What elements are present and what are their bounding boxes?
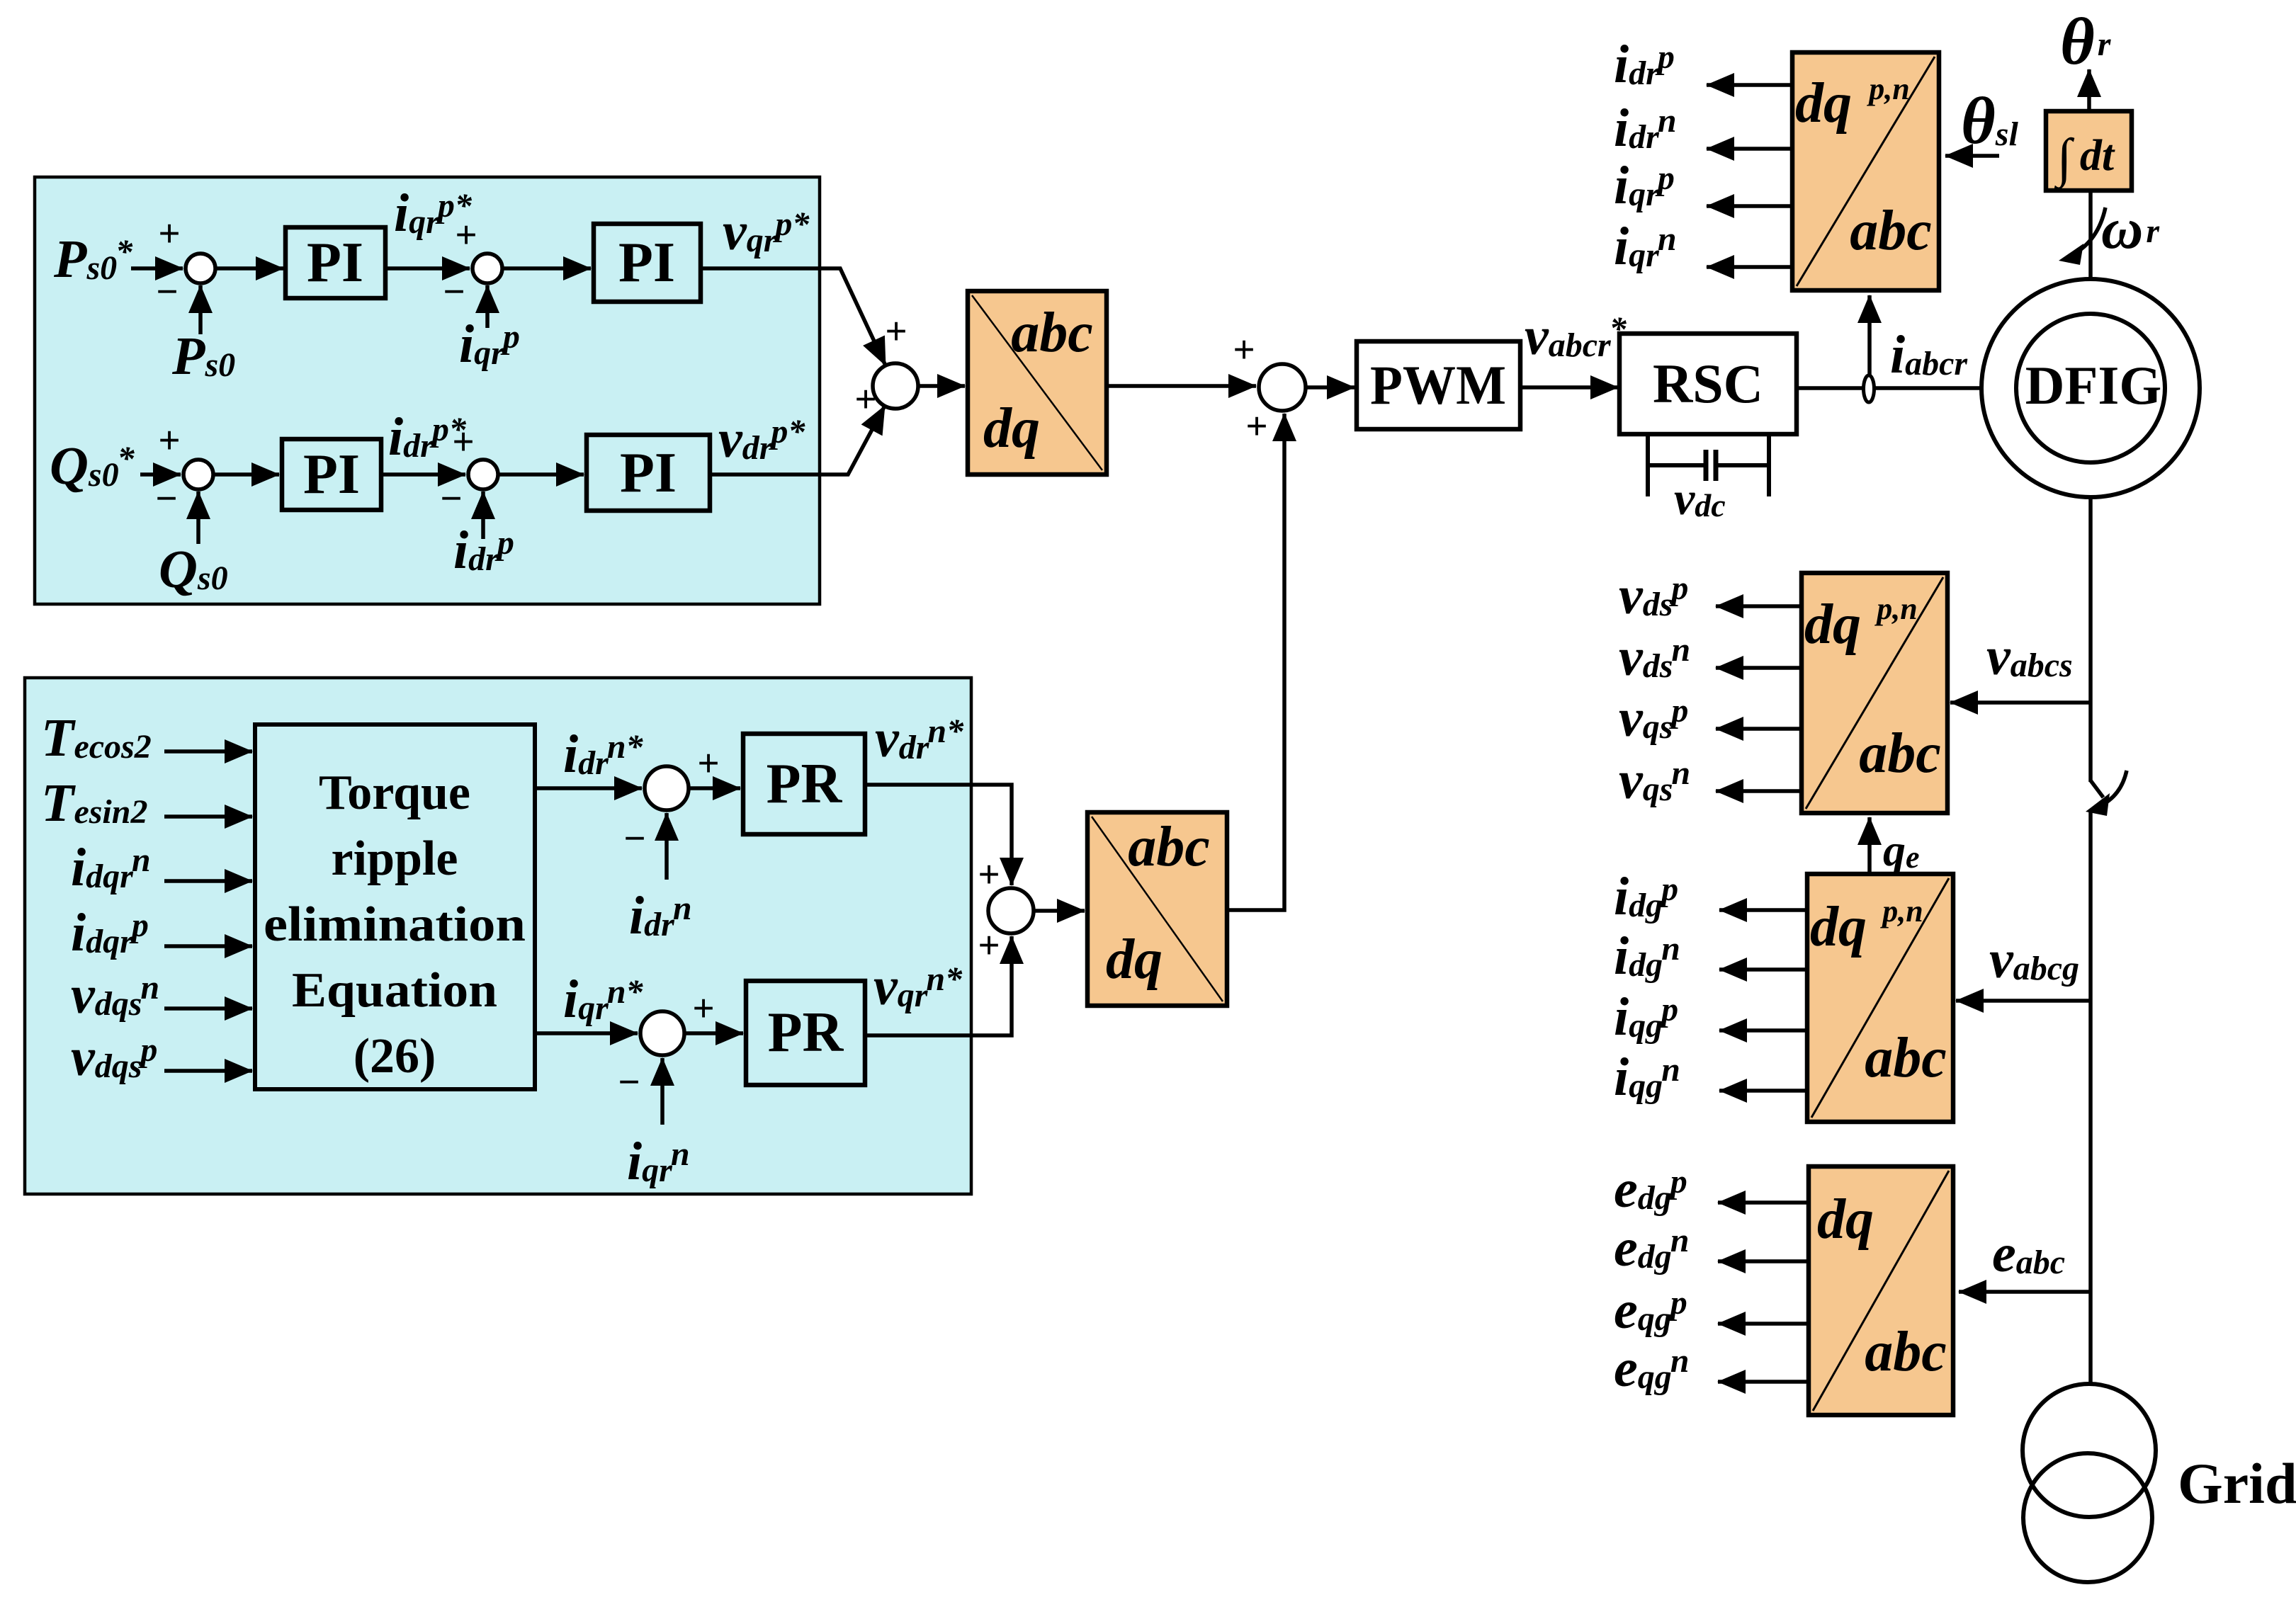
svg-text:dq: dq: [1804, 593, 1861, 656]
svg-text:Torque: Torque: [319, 766, 470, 820]
svg-text:+: +: [697, 742, 719, 785]
svg-text:abc: abc: [1011, 302, 1093, 364]
svg-text:−: −: [156, 270, 178, 313]
svg-text:PI: PI: [620, 442, 677, 504]
svg-text:abc: abc: [1850, 200, 1932, 262]
svg-text:+: +: [885, 309, 907, 353]
svg-text:+: +: [692, 987, 714, 1030]
svg-text:−: −: [440, 477, 462, 520]
svg-text:∫: ∫: [2054, 128, 2075, 191]
svg-text:(26): (26): [354, 1029, 436, 1084]
svg-text:dq: dq: [1810, 896, 1867, 958]
svg-text:dq: dq: [1795, 72, 1852, 135]
svg-text:−: −: [155, 477, 177, 520]
svg-text:Equation: Equation: [292, 963, 497, 1018]
svg-text:abc: abc: [1865, 1321, 1947, 1383]
svg-text:+: +: [1245, 404, 1267, 448]
svg-text:dt: dt: [2080, 132, 2115, 180]
svg-text:dq: dq: [1106, 928, 1163, 991]
svg-text:p,n: p,n: [1874, 591, 1917, 626]
svg-text:+: +: [158, 419, 180, 462]
svg-text:+: +: [452, 420, 474, 463]
svg-text:+: +: [455, 213, 477, 256]
svg-text:dq: dq: [1817, 1188, 1874, 1251]
svg-text:abc: abc: [1865, 1027, 1947, 1089]
svg-text:−: −: [623, 817, 645, 860]
svg-text:ripple: ripple: [332, 831, 458, 886]
svg-text:PWM: PWM: [1370, 354, 1506, 416]
svg-text:+: +: [158, 212, 180, 255]
svg-text:p,n: p,n: [1866, 72, 1909, 106]
svg-text:−: −: [618, 1060, 640, 1103]
svg-text:abc: abc: [1128, 816, 1210, 878]
svg-text:PR: PR: [767, 753, 843, 815]
svg-text:RSC: RSC: [1653, 353, 1763, 414]
svg-text:PI: PI: [303, 443, 360, 506]
svg-text:PI: PI: [307, 232, 363, 294]
svg-text:PI: PI: [618, 232, 675, 294]
svg-text:−: −: [443, 270, 465, 313]
svg-text:PR: PR: [768, 1001, 844, 1064]
svg-text:+: +: [1233, 328, 1255, 371]
svg-text:dq: dq: [983, 397, 1040, 460]
svg-text:p,n: p,n: [1879, 894, 1923, 928]
svg-text:+: +: [854, 377, 876, 421]
svg-text:elimination: elimination: [264, 897, 526, 952]
svg-text:Grid: Grid: [2178, 1451, 2296, 1516]
svg-text:DFIG: DFIG: [2025, 355, 2162, 416]
svg-text:abc: abc: [1859, 722, 1941, 785]
svg-text:+: +: [978, 924, 1000, 967]
svg-text:+: +: [978, 853, 1000, 896]
